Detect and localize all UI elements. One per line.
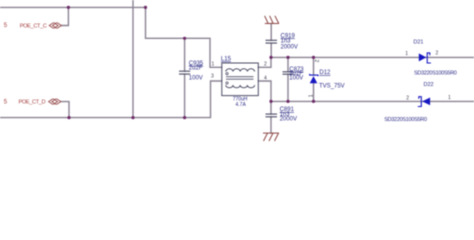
svg-text:SD3220S100S5R0: SD3220S100S5R0 [414,71,457,77]
svg-text:D21: D21 [413,39,423,45]
svg-text:2: 2 [406,95,409,101]
svg-text:D12: D12 [319,70,331,76]
svg-text:5: 5 [4,99,8,105]
svg-text:2u2F: 2u2F [189,66,203,72]
svg-text:TVS_75V: TVS_75V [319,84,345,90]
svg-text:1: 1 [405,51,408,57]
svg-text:2000V: 2000V [281,44,298,50]
svg-text:L15: L15 [221,56,232,62]
svg-text:1: 1 [309,94,315,97]
svg-text:POE_CT_D: POE_CT_D [19,99,46,105]
svg-text:4: 4 [264,76,267,82]
svg-text:2: 2 [313,60,319,63]
svg-text:1: 1 [212,61,215,67]
svg-text:5: 5 [4,23,8,29]
svg-text:2: 2 [436,51,439,57]
svg-text:100V: 100V [189,75,203,81]
svg-text:SD3220S100S5R0: SD3220S100S5R0 [384,117,427,123]
svg-text:POE_CT_C: POE_CT_C [20,23,47,29]
svg-text:3: 3 [211,73,214,79]
svg-text:4.7A: 4.7A [236,102,247,108]
svg-text:100V: 100V [289,75,303,81]
svg-text:1: 1 [448,95,451,101]
svg-text:2000V: 2000V [280,116,297,122]
svg-text:2: 2 [264,61,267,67]
svg-text:D22: D22 [424,82,434,88]
